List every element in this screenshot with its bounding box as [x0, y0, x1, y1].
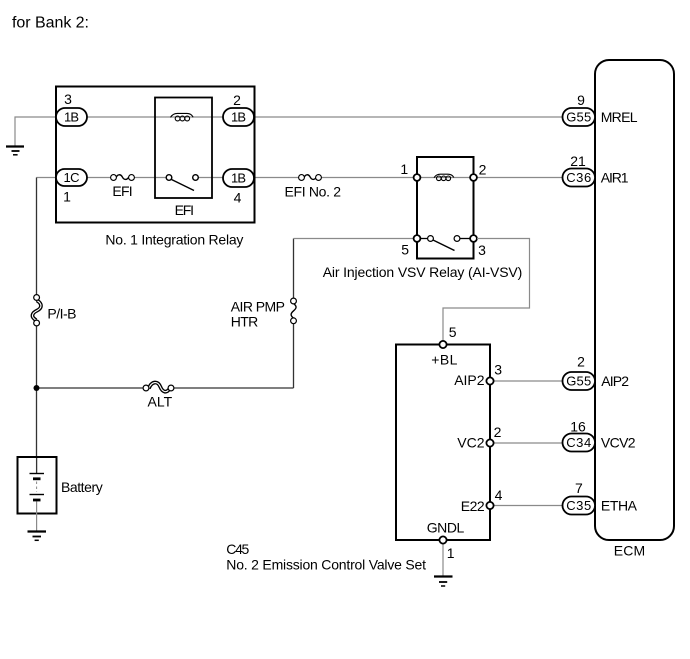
svg-text:7: 7: [575, 480, 583, 496]
svg-text:EFI: EFI: [112, 183, 132, 199]
svg-text:9: 9: [577, 92, 585, 108]
svg-text:1: 1: [400, 161, 408, 177]
svg-text:G55: G55: [566, 110, 591, 125]
VSV switch: [428, 236, 460, 251]
connector oval 1B pin4: [223, 169, 254, 187]
svg-text:1B: 1B: [231, 110, 246, 125]
wire row1 MREL net (ground to ECM G55): [15, 117, 563, 146]
battery symbol: [30, 458, 45, 500]
valve set pin3 circle: [486, 377, 493, 384]
wire AIP2 row: [490, 380, 563, 382]
wire AIR PMP HTR vertical: [293, 239, 295, 389]
ECM box: [595, 60, 674, 540]
svg-text:3: 3: [64, 91, 72, 107]
svg-text:2: 2: [577, 354, 585, 370]
svg-text:ETHA: ETHA: [601, 497, 638, 513]
svg-text:GNDL: GNDL: [427, 519, 465, 535]
node junction dot at battery tap: [34, 385, 40, 391]
relay inner EFI box: [155, 98, 212, 199]
svg-text:EFI No. 2: EFI No. 2: [285, 184, 342, 200]
wire GNDL to ground: [442, 540, 444, 576]
svg-text:2: 2: [233, 92, 241, 108]
svg-text:AIR PMP: AIR PMP: [231, 299, 285, 315]
svg-text:AIP2: AIP2: [454, 372, 485, 388]
wire ETHA row: [490, 505, 563, 507]
svg-text:VCV2: VCV2: [601, 435, 636, 451]
battery box: [18, 457, 57, 514]
svg-text:5: 5: [401, 242, 409, 258]
wire battery junction to ALT horizontal: [37, 387, 294, 389]
svg-text:1C: 1C: [64, 170, 80, 185]
VSV pin2 circle: [470, 174, 477, 181]
svg-text:2: 2: [479, 162, 487, 178]
No. 2 Emission Control Valve Set box: [396, 345, 490, 541]
VSV switch stub wires: [417, 238, 428, 240]
wire battery feed vertical (1C down through P/I-B to junction and battery): [36, 178, 38, 458]
svg-text:MREL: MREL: [601, 109, 638, 125]
svg-text:C35: C35: [566, 498, 591, 513]
connector oval 1C pin1: [56, 169, 87, 186]
fuse P/I-B (fusible link): [32, 295, 41, 326]
connector oval C36 AIR1: [563, 169, 596, 187]
svg-text:1: 1: [447, 545, 455, 561]
svg-text:VC2: VC2: [457, 434, 484, 450]
fuse ALT (fusible link): [143, 383, 174, 392]
Air Injection VSV Relay box: [417, 157, 474, 259]
svg-text:for Bank 2:: for Bank 2:: [12, 15, 89, 32]
wire VSV pin3 to valve set +BL: [443, 239, 530, 345]
svg-text:C45: C45: [226, 541, 249, 557]
VSV pin1 circle: [414, 174, 421, 181]
valve set pin2 circle: [486, 439, 493, 446]
svg-text:1B: 1B: [64, 110, 79, 125]
svg-text:16: 16: [570, 418, 586, 434]
wire VCV2 row: [490, 442, 563, 444]
svg-text:No. 1 Integration Relay: No. 1 Integration Relay: [105, 232, 243, 248]
svg-text:HTR: HTR: [231, 314, 259, 330]
valve set pin1 circle: [439, 536, 446, 543]
svg-text:P/I-B: P/I-B: [47, 306, 76, 322]
wire to VSV pin5 horizontal: [294, 238, 418, 240]
svg-text:+BL: +BL: [431, 352, 457, 368]
svg-text:Battery: Battery: [61, 479, 103, 495]
connector oval C34 VCV2: [563, 434, 596, 452]
connector oval 1B pin2: [223, 108, 254, 126]
svg-text:No. 2 Emission Control Valve S: No. 2 Emission Control Valve Set: [226, 556, 426, 572]
connector oval 1B pin3: [56, 108, 87, 126]
No.1 Integration Relay outer box: [56, 87, 255, 223]
valve set pin5 circle: [439, 341, 446, 348]
fuse EFI No. 2: [299, 175, 322, 181]
connector oval G55 MREL: [563, 108, 596, 126]
svg-text:3: 3: [494, 362, 502, 378]
fuse AIR PMP HTR: [291, 298, 297, 324]
svg-text:ECM: ECM: [614, 543, 646, 559]
connector oval G55 AIP2: [563, 372, 596, 390]
svg-text:EFI: EFI: [175, 202, 194, 218]
valve set pin4 circle: [486, 502, 493, 509]
VSV pin5 circle: [414, 235, 421, 242]
ground (battery): [28, 532, 47, 541]
svg-text:1: 1: [63, 189, 71, 205]
ground (left, MREL net): [6, 147, 24, 155]
svg-text:E22: E22: [461, 498, 485, 514]
svg-text:Air Injection VSV Relay (AI-VS: Air Injection VSV Relay (AI-VSV): [323, 264, 523, 280]
svg-text:AIR1: AIR1: [601, 169, 629, 185]
svg-text:1B: 1B: [231, 171, 246, 186]
svg-text:4: 4: [495, 487, 503, 503]
relay switch EFI: [166, 175, 198, 191]
svg-text:C34: C34: [566, 435, 591, 450]
svg-text:G55: G55: [566, 374, 591, 389]
VSV pin3 circle: [470, 235, 477, 242]
wire row2 AIR1 net (1C corner to ECM C36): [37, 177, 563, 179]
svg-text:4: 4: [234, 190, 242, 206]
relay coil EFI: [171, 113, 194, 121]
svg-text:5: 5: [449, 324, 457, 340]
svg-text:AIP2: AIP2: [601, 373, 629, 389]
VSV relay coil: [434, 174, 454, 180]
connector oval C35 ETHA: [563, 497, 596, 515]
svg-text:21: 21: [570, 153, 586, 169]
wire battery to ground: [36, 502, 38, 531]
fuse EFI: [111, 175, 135, 181]
svg-text:C36: C36: [566, 170, 591, 185]
ground (valve set GNDL): [434, 577, 453, 587]
svg-text:3: 3: [478, 242, 486, 258]
svg-text:2: 2: [494, 424, 502, 440]
svg-text:ALT: ALT: [148, 393, 173, 409]
